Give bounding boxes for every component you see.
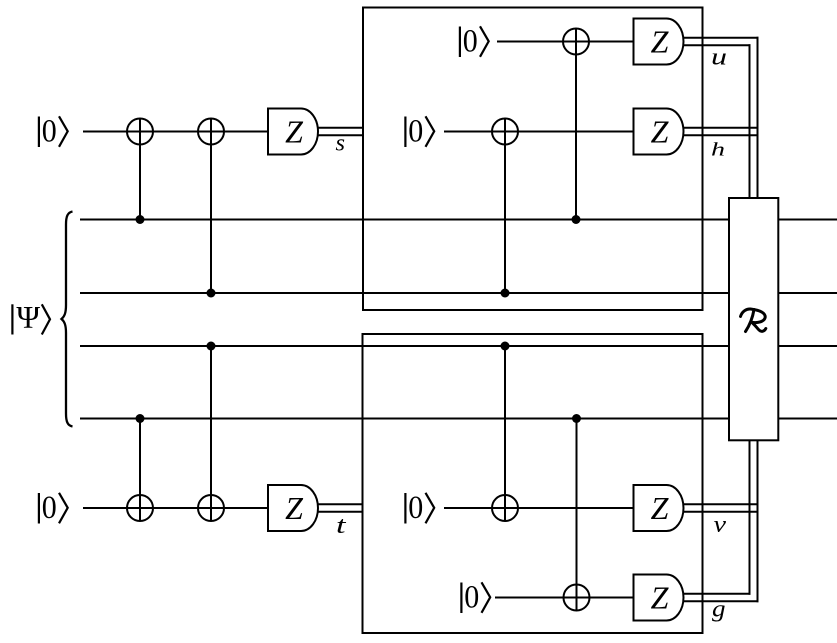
svg-text:0: 0 [464, 580, 479, 616]
svg-text:0: 0 [408, 490, 423, 526]
svg-text:0: 0 [408, 114, 423, 150]
svg-text:Z: Z [285, 114, 304, 150]
svg-text:Z: Z [651, 490, 670, 526]
svg-text:0: 0 [463, 24, 478, 60]
svg-text:u: u [711, 45, 727, 71]
svg-text:Z: Z [651, 24, 670, 60]
svg-text:v: v [714, 512, 727, 538]
svg-text:0: 0 [42, 490, 57, 526]
svg-text:Z: Z [651, 580, 670, 616]
svg-text:g: g [712, 597, 726, 623]
svg-text:Z: Z [651, 114, 670, 150]
svg-text:0: 0 [42, 114, 57, 150]
svg-text:s: s [336, 131, 346, 157]
svg-text:Ψ: Ψ [16, 299, 40, 335]
svg-text:Z: Z [285, 490, 304, 526]
svg-text:h: h [711, 140, 725, 161]
